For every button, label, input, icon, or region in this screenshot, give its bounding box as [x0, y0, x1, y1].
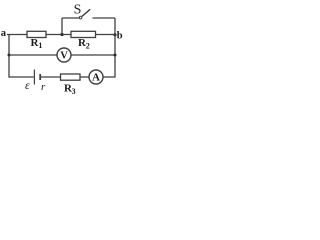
wire voltmeter right: [71, 54, 115, 56]
junction voltmeter left: [8, 54, 11, 57]
svg-text:a: a: [1, 28, 7, 39]
label epsilon (emf): [25, 78, 30, 92]
wire R3 to ammeter: [80, 76, 89, 78]
svg-text:V: V: [60, 50, 68, 61]
switch S blade: [82, 9, 90, 16]
svg-text:A: A: [92, 72, 100, 84]
wire R1 to R2: [46, 34, 71, 36]
junction node b: [113, 33, 116, 36]
wire voltmeter left: [9, 54, 57, 56]
background: [0, 0, 131, 104]
svg-text:2: 2: [86, 41, 90, 50]
wire bottom left to battery: [9, 76, 34, 78]
label S: [74, 3, 82, 18]
label R1: [31, 37, 43, 50]
svg-text:b: b: [117, 30, 123, 41]
junction voltmeter right: [114, 54, 117, 57]
wire a to R1: [7, 34, 27, 36]
junction node between R1 and R2: [60, 33, 63, 36]
battery long plate: [33, 70, 35, 85]
label R2: [78, 37, 90, 50]
label r (internal resistance): [41, 81, 46, 93]
resistor R3: [61, 74, 81, 80]
battery short plate: [39, 74, 41, 80]
svg-text:S: S: [74, 3, 82, 18]
wire battery to R3: [41, 76, 61, 78]
svg-text:3: 3: [72, 87, 76, 96]
svg-text:1: 1: [38, 41, 42, 50]
voltmeter V: [57, 48, 71, 62]
wire switch riser: [61, 18, 63, 35]
wire right vertical: [114, 18, 116, 78]
svg-text:r: r: [41, 81, 46, 93]
ammeter A: [89, 70, 103, 84]
wire R2 to b: [96, 34, 116, 36]
wire left vertical a-branch: [8, 34, 10, 78]
resistor R2: [71, 31, 96, 37]
node a: [1, 28, 7, 39]
svg-text:ε: ε: [25, 78, 30, 92]
wire switch right: [93, 17, 116, 19]
wire switch left: [62, 17, 79, 19]
wire ammeter to right vertical: [103, 76, 115, 78]
switch S pivot: [79, 16, 82, 19]
label R3: [64, 83, 76, 97]
label b: [117, 30, 123, 41]
resistor R1: [27, 31, 46, 37]
